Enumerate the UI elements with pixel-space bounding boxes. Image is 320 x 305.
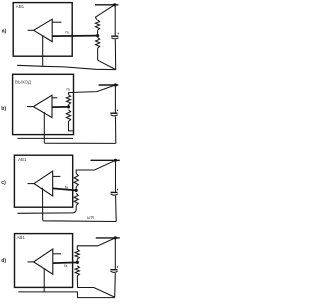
svg-text:d): d)	[1, 258, 6, 264]
svg-text:rв: rв	[65, 30, 69, 35]
svg-text:rв: rв	[65, 185, 69, 190]
svg-text:rв: rв	[64, 263, 68, 268]
svg-text:ω′R: ω′R	[87, 215, 94, 220]
svg-text:rв: rв	[66, 87, 70, 92]
svg-text:b): b)	[1, 106, 6, 112]
svg-text:АВ1: АВ1	[17, 235, 26, 240]
svg-text:ВЫХОД: ВЫХОД	[15, 80, 31, 85]
svg-text:АВ1: АВ1	[18, 157, 27, 162]
svg-text:c): c)	[1, 180, 6, 186]
svg-text:a): a)	[2, 29, 7, 35]
svg-text:АВ1: АВ1	[16, 4, 25, 9]
